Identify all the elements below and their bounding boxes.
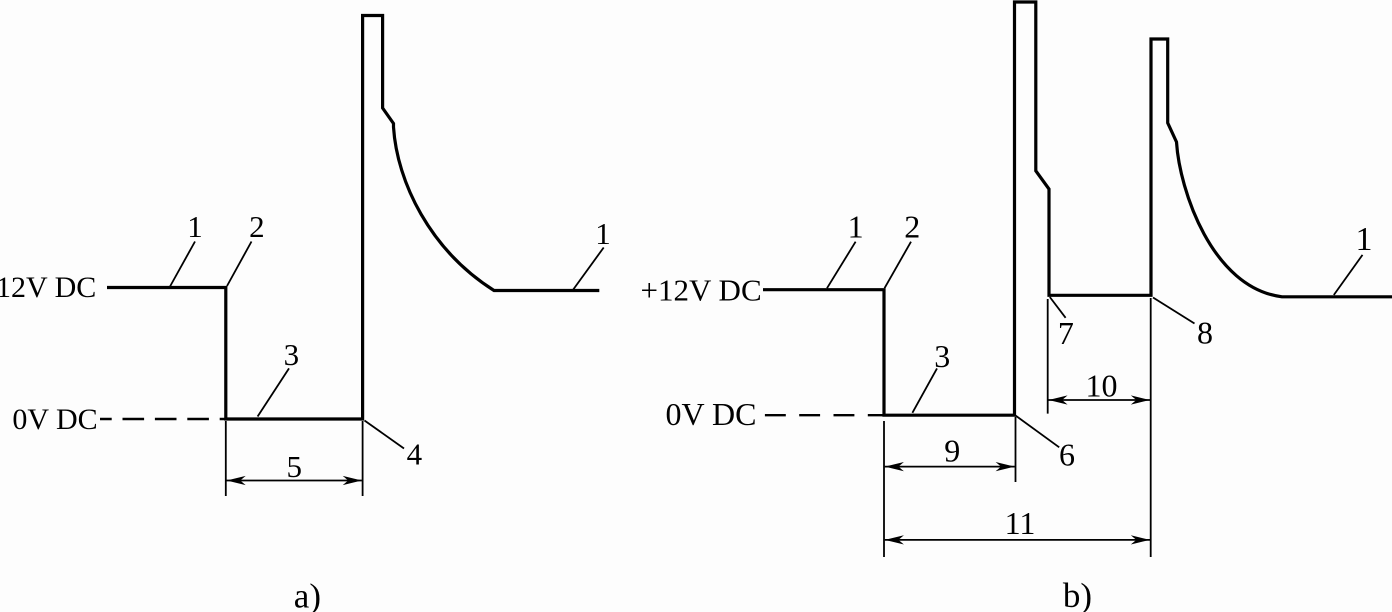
svg-text:5: 5 [286,449,302,484]
svg-text:10: 10 [1086,368,1118,404]
svg-text:1: 1 [187,209,203,244]
svg-text:12V DC: 12V DC [0,271,96,304]
svg-text:b): b) [1063,576,1092,612]
svg-text:+12V DC: +12V DC [641,273,762,308]
svg-text:4: 4 [407,437,423,472]
svg-text:1: 1 [848,209,864,245]
svg-text:8: 8 [1197,315,1213,351]
svg-text:11: 11 [1005,505,1036,541]
svg-text:2: 2 [904,209,920,245]
svg-text:a): a) [294,577,321,612]
svg-text:7: 7 [1058,315,1074,351]
svg-text:3: 3 [284,337,300,372]
svg-text:1: 1 [1356,221,1373,258]
svg-text:9: 9 [944,433,960,469]
svg-text:1: 1 [595,216,611,251]
svg-text:0V DC: 0V DC [12,403,97,436]
svg-text:0V DC: 0V DC [666,396,757,432]
svg-text:2: 2 [249,209,265,244]
svg-text:3: 3 [934,338,950,374]
svg-text:6: 6 [1059,437,1075,473]
